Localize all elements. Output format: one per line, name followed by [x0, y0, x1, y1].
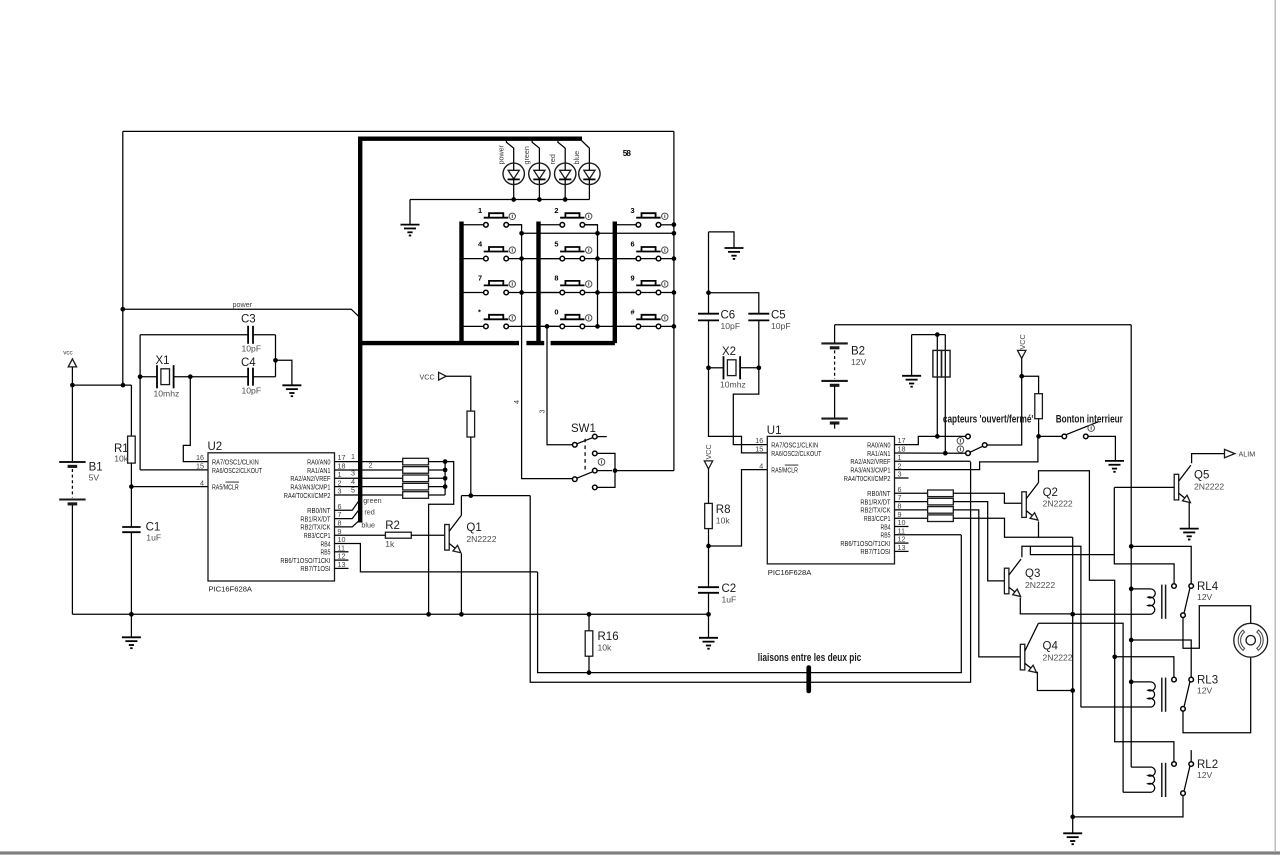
svg-text:10pF: 10pF — [242, 386, 262, 396]
svg-text:Q2: Q2 — [1043, 487, 1058, 499]
resistor U1-RB3 — [928, 515, 954, 522]
ground below C1 — [130, 614, 132, 637]
crystal X1 10mhz — [140, 376, 157, 378]
wire: RB2 resistor to Q4 base — [953, 510, 1020, 657]
svg-text:10k: 10k — [114, 454, 129, 464]
wire: RL2 bottom contact to ground bus — [1073, 796, 1183, 817]
resistor R1 10k — [130, 385, 132, 436]
svg-text:2N2222: 2N2222 — [1025, 580, 1055, 590]
svg-text:C6: C6 — [721, 310, 736, 322]
svg-text:RL3: RL3 — [1197, 674, 1218, 686]
svg-text:SW1: SW1 — [571, 423, 596, 435]
svg-text:green: green — [363, 496, 381, 505]
svg-text:1uF: 1uF — [722, 594, 737, 604]
wire: Q5 emitter to ground — [1188, 503, 1190, 529]
SW1 pole1 contact + arm — [573, 443, 578, 448]
svg-text:5V: 5V — [89, 473, 100, 483]
svg-text:0: 0 — [554, 307, 558, 316]
wire: RL3 pivot to rail — [1131, 640, 1191, 677]
svg-text:2N2222: 2N2222 — [1043, 499, 1073, 509]
LED blue — [582, 141, 590, 200]
svg-text:1k: 1k — [385, 539, 395, 549]
wire: U2 RA4/T0CKI/CMP2 to resistor — [335, 494, 403, 496]
svg-text:10mhz: 10mhz — [720, 380, 746, 390]
svg-text:2N2222: 2N2222 — [1043, 652, 1073, 662]
wire: capteur top link + ground — [912, 334, 946, 336]
svg-text:3: 3 — [631, 206, 635, 215]
push button 1 — [462, 224, 486, 226]
svg-text:U1: U1 — [767, 425, 782, 437]
wire: Bonton to ground — [1088, 436, 1115, 461]
svg-text:red: red — [364, 507, 374, 516]
resistor U2-RA3 — [403, 483, 429, 490]
relay RL2 coil — [1131, 767, 1155, 792]
wire: big rectangle right edge / keypad col3 bus down to SW1 — [673, 131, 675, 470]
resistor U1-RB0 — [928, 490, 954, 497]
wire: resistor pack common bus — [444, 462, 446, 495]
svg-text:10pF: 10pF — [771, 321, 791, 331]
push button 2 — [539, 224, 563, 226]
wire: '3' wire from keypad to SW1 — [547, 326, 575, 444]
resistor U2-RA4 — [403, 492, 429, 499]
svg-text:15: 15 — [755, 445, 763, 454]
svg-text:6: 6 — [631, 240, 635, 249]
svg-text:X2: X2 — [722, 346, 736, 358]
capacitor C3 10pF — [247, 326, 249, 344]
wire: Q3 emitter — [1020, 598, 1072, 614]
svg-text:power: power — [233, 300, 253, 309]
svg-text:10pF: 10pF — [721, 321, 741, 331]
wire: Q4 emitter — [1036, 672, 1072, 690]
wire: U1 RA2 -> outer liaison drop; RA3 -> Bonton (jogs) — [895, 460, 971, 462]
wires: U2 RB5-RB7 stubs — [335, 551, 349, 553]
sensor capteur 2 — [944, 335, 946, 454]
wire: thick keypad column bars — [459, 222, 463, 344]
wire: resistor RA1 out — [429, 469, 446, 471]
svg-text:VCC: VCC — [704, 444, 713, 459]
ground top middle — [725, 247, 744, 249]
svg-text:4: 4 — [759, 461, 763, 470]
svg-text:ALIM: ALIM — [1239, 450, 1256, 459]
wire: resistor RA0 out — [429, 461, 446, 463]
relay RL3 core — [1161, 678, 1163, 712]
wire: Q1 collector horizontal — [461, 495, 530, 497]
svg-text:12V: 12V — [1197, 686, 1213, 696]
capteur switch contact 1 — [966, 434, 971, 439]
svg-text:13: 13 — [898, 543, 906, 552]
wire: big rectangle top edge — [123, 130, 674, 132]
svg-text:10k: 10k — [598, 643, 613, 653]
svg-text:power: power — [497, 144, 506, 164]
relay RL4 coil — [1131, 589, 1155, 614]
motor M — [1234, 623, 1268, 657]
svg-text:B2: B2 — [851, 346, 865, 358]
wire: VCC to pull-up resistor — [1022, 376, 1039, 394]
wires: U1 RB6 RB7 stubs — [895, 542, 909, 544]
svg-text:C3: C3 — [241, 314, 256, 326]
SW1 mid contact — [593, 451, 598, 456]
node: SW1 output junction — [613, 468, 618, 473]
wire: osc loop left vertical to U2 pin15 — [139, 335, 141, 470]
battery B1 5V — [71, 385, 73, 462]
node: C6/C5 top junction — [706, 290, 711, 295]
wire: RL2 coil bottom to Q4 collector net — [1123, 791, 1152, 793]
wire: U1 RB4 stub — [895, 526, 909, 528]
svg-text:B1: B1 — [89, 461, 103, 473]
capacitor C5 10pF — [748, 313, 769, 315]
push button 5 — [539, 258, 563, 260]
wire: resistor RA4 out — [429, 494, 446, 496]
ground bottom right — [1072, 817, 1074, 833]
svg-text:9: 9 — [631, 274, 635, 283]
capacitor C4 10pF — [247, 368, 249, 386]
svg-text:R16: R16 — [598, 631, 619, 643]
transistor Q1 2N2222 — [445, 525, 450, 551]
node: C3/C4 ground tap — [273, 358, 278, 363]
ground Bonton — [1105, 460, 1124, 462]
wire: Q1 collector riser — [460, 496, 462, 516]
resistor (Q1 collector pullup) — [467, 411, 475, 437]
wire: RL3 coil bottom to Q3 collector net — [1081, 706, 1152, 708]
svg-text:VCC: VCC — [420, 373, 435, 382]
transistor Q2 2N2222 — [1022, 492, 1027, 518]
wire: U2 RA2/AN2/VREF to resistor — [335, 477, 403, 479]
svg-text:U2: U2 — [208, 441, 223, 453]
node: RL3 contact branch — [1112, 654, 1117, 659]
Bonton switch — [1039, 435, 1062, 437]
wire: 12V top rail — [835, 324, 1132, 326]
resistor (Bonton pull-up) — [1035, 394, 1043, 419]
SW1 link dashes — [584, 439, 586, 471]
wire: osc loop top with C3 — [140, 334, 248, 336]
push button 8 — [539, 292, 563, 294]
svg-text:C2: C2 — [722, 583, 737, 595]
svg-text:8: 8 — [554, 274, 558, 283]
svg-text:blue: blue — [361, 521, 375, 530]
wire: U1 RB0 to resistor — [895, 492, 928, 494]
bus entry marker — [806, 665, 811, 693]
svg-text:RA6/OSC2/CLKOUT: RA6/OSC2/CLKOUT — [771, 449, 821, 458]
relay RL4 core — [1161, 585, 1163, 619]
resistor U2-RA1 — [403, 467, 429, 474]
svg-text:4: 4 — [200, 478, 204, 487]
node: R8 bottom / U1 MCLR — [706, 544, 711, 549]
wire: osc loop right vertical — [275, 335, 277, 377]
symbol: circled marks capteurs — [957, 438, 964, 445]
wire: branch to RL3 top contact — [1115, 657, 1174, 677]
wire: outer liaison (Q1 node to U1 RA2) — [530, 462, 970, 682]
wire: MCLR to U2 pin 4 — [131, 486, 208, 488]
wire: inner liaison (U2 RB4 to U1 RB5) — [538, 535, 962, 673]
svg-text:1uF: 1uF — [146, 533, 161, 543]
svg-text:13: 13 — [338, 560, 346, 569]
relay RL2 contacts — [1172, 762, 1177, 767]
push button 4 — [462, 258, 486, 260]
wire: col1/col2 right-pin vertical (to SW1 '4' wire) — [506, 225, 575, 479]
wire: LED bottom rail — [410, 199, 589, 201]
push button * — [462, 325, 486, 327]
resistor U2-RA0 — [403, 458, 429, 465]
LED power — [506, 141, 513, 200]
node: crystal right / U2 pin16 riser — [188, 374, 193, 379]
svg-text:Q4: Q4 — [1043, 641, 1059, 653]
wire: X2 left branch down to U1 pin15 — [709, 368, 768, 453]
transistor Q5 2N2222 — [1174, 474, 1179, 500]
SW1 bottom contact — [593, 485, 598, 490]
svg-text:12V: 12V — [851, 357, 867, 367]
svg-text:PIC16F628A: PIC16F628A — [209, 585, 253, 594]
resistor U1-RB1 — [928, 498, 954, 505]
wire: U1 RA0 to capteur1 contact — [895, 436, 966, 444]
SW1 pole2 contact + arm — [573, 477, 578, 482]
wire: RB3 resistor long route — [953, 518, 1072, 537]
wire: U1 RA4 stub — [895, 477, 909, 479]
wire: top-middle ground branch — [709, 232, 735, 248]
node: crystal left — [138, 374, 143, 379]
transistor Q4 2N2222 — [1020, 644, 1025, 670]
wire: U1 RB2 to resistor — [895, 509, 928, 511]
push button 6 — [615, 258, 639, 260]
svg-text:RL4: RL4 — [1197, 581, 1219, 593]
LED green — [532, 141, 539, 200]
svg-text:red: red — [548, 154, 557, 164]
node: MCLR junction — [129, 484, 134, 489]
svg-text:10mhz: 10mhz — [154, 389, 180, 399]
wire: vcc/B1 horizontal at y=385 — [72, 384, 131, 386]
wire: RL4 pivot to rail — [1131, 546, 1191, 583]
ground below LEDs — [409, 200, 411, 225]
wire: resistor RA2 out — [429, 477, 446, 479]
wire: RL4 bottom contact to motor top — [1183, 606, 1251, 648]
svg-text:12V: 12V — [1197, 592, 1213, 602]
svg-text:4: 4 — [512, 400, 521, 404]
wire: thick bus left vertical — [358, 137, 362, 523]
svg-text:RB7/T1OSI: RB7/T1OSI — [860, 547, 890, 556]
svg-text:12V: 12V — [1197, 770, 1213, 780]
wire: Q5 base — [1114, 486, 1174, 488]
wire: Q1 emitter to ground rail — [460, 554, 462, 615]
wire: power net to thick LED bus — [123, 309, 360, 318]
svg-text:RA4/T0CKI/CMP2: RA4/T0CKI/CMP2 — [284, 491, 331, 500]
svg-text:*: * — [478, 307, 481, 316]
relay RL3 coil — [1131, 682, 1155, 707]
svg-text:5: 5 — [554, 240, 558, 249]
wire: SW1 output to keypad col3 edge — [615, 470, 674, 472]
svg-text:C5: C5 — [771, 310, 786, 322]
svg-text:PIC16F628A: PIC16F628A — [768, 568, 812, 577]
wire: RL2 pivot stub — [1190, 750, 1192, 762]
wire: RB0 resistor to Q2 base — [953, 493, 1022, 503]
node: Bonton node — [1036, 434, 1041, 439]
svg-text:RA5/MCLR: RA5/MCLR — [771, 465, 798, 474]
svg-text:2: 2 — [554, 206, 558, 215]
relay RL4 contacts — [1172, 584, 1177, 589]
capacitor C2 1uF — [698, 586, 719, 588]
svg-text:Q5: Q5 — [1194, 470, 1209, 482]
ALIM arrow — [1225, 449, 1235, 457]
wire: pack bus to ground rail (jog) — [429, 462, 454, 615]
wire: U1 RB5 to inner liaison — [895, 534, 962, 536]
sensor capteur 1 — [936, 335, 938, 437]
svg-text:liaisons entre les deux pic: liaisons entre les deux pic — [758, 652, 862, 664]
crystal X2 10mhz — [706, 365, 711, 370]
svg-text:15: 15 — [196, 462, 204, 471]
svg-text:1: 1 — [478, 206, 482, 215]
svg-text:blue: blue — [572, 151, 581, 165]
svg-text:vcc: vcc — [63, 350, 72, 357]
wire: thick bus bottom horizontal (gaps at wire crossings) — [358, 341, 519, 345]
wire: Q5 base riser / RL4 left contact — [1114, 487, 1174, 583]
wire: big rectangle left edge — [122, 131, 124, 385]
wire: U2 pin15 into box — [140, 469, 208, 471]
wire: U2 RA0/AN0 to resistor — [335, 461, 403, 463]
wire: U2 RB4 long wire to inner liaison — [335, 544, 538, 572]
svg-text:capteurs 'ouvert/fermé': capteurs 'ouvert/fermé' — [943, 414, 1034, 426]
svg-text:3: 3 — [898, 470, 902, 479]
relay RL3 contacts — [1172, 677, 1177, 682]
wire: VCC to resistor — [446, 376, 471, 411]
svg-text:RA6/OSC2/CLKOUT: RA6/OSC2/CLKOUT — [212, 466, 262, 475]
node: Q1 collector node — [468, 493, 473, 498]
push button 7 — [462, 292, 486, 294]
svg-text:10k: 10k — [716, 516, 731, 526]
resistor R2 1k — [335, 534, 386, 536]
resistor U1-RB2 — [928, 507, 954, 514]
wire: thick bus top horizontal — [358, 136, 582, 140]
svg-text:C4: C4 — [241, 357, 256, 369]
svg-text:green: green — [522, 146, 531, 164]
resistor R8 10k — [708, 529, 710, 588]
ground capteurs — [902, 375, 921, 377]
svg-text:RB7/T1OSI: RB7/T1OSI — [300, 564, 330, 573]
ground Q5 — [1180, 528, 1199, 530]
svg-text:3: 3 — [537, 410, 546, 414]
wire: Q3 collector net (to RL3 coil + Q5 base) — [1022, 546, 1081, 707]
svg-text:1: 1 — [351, 452, 355, 461]
wire: central emitter/ground bus — [1072, 537, 1074, 817]
wire: 12V rail right vertical — [1130, 325, 1132, 767]
wire: crystal right to U2 pin 16 (jog) — [183, 377, 208, 462]
node: rail to RL4 coil — [1129, 587, 1134, 592]
wire: U1 RB1 to resistor — [895, 501, 928, 503]
wire: U1 RA1 to capteur2 contact — [895, 452, 966, 454]
wire: U1 RB3 to resistor — [895, 517, 928, 519]
wire: resistor RA3 out — [429, 486, 446, 488]
wire: keypad row interconnects — [522, 232, 674, 234]
ground below C2 — [699, 637, 718, 639]
capteur switch contact 2 + arm — [966, 451, 971, 456]
node: VCC capteur — [1019, 374, 1024, 379]
svg-text:RA5/MCLR: RA5/MCLR — [212, 482, 239, 491]
svg-text:VCC: VCC — [1018, 334, 1027, 349]
svg-text:2N2222: 2N2222 — [1194, 481, 1224, 491]
wire: X2 right branch down to U1 pin16 — [733, 368, 767, 445]
wire: main ground rail — [72, 613, 708, 615]
relay RL2 core — [1161, 763, 1163, 797]
wire: U2 RA1/AN1 to resistor — [335, 469, 403, 471]
wire: Q4 collector to RL2 coil — [1038, 623, 1123, 792]
wire: U2 RA3/AN3/CMP1 to resistor — [335, 486, 403, 488]
push button 9 — [615, 292, 639, 294]
battery B2 12V — [834, 325, 836, 344]
wire: RL3 bottom contact to motor bottom — [1183, 657, 1251, 733]
svg-text:R2: R2 — [385, 520, 400, 532]
wire: Q2 collector to relay chain — [1039, 471, 1174, 762]
wire: capteur common to VCC — [987, 376, 1022, 445]
push button 0 — [539, 325, 563, 327]
wire: RL4 coil bottom to emitter bus — [1073, 613, 1152, 615]
transistor Q3 2N2222 — [1004, 568, 1009, 594]
wire: RB1 resistor to Q3 base — [953, 502, 1004, 581]
resistor U2-RA2 — [403, 475, 429, 482]
resistor R16 10k — [587, 612, 592, 617]
svg-text:3: 3 — [338, 487, 342, 496]
node: power tap on left edge — [120, 307, 125, 312]
wire: Q5 collector to ALIM — [1192, 454, 1225, 464]
wire + ground at oscillator — [276, 360, 292, 385]
svg-text:Q1: Q1 — [466, 522, 481, 534]
svg-text:Bonton interrieur: Bonton interrieur — [1056, 414, 1124, 426]
svg-text:RA4/T0CKI/CMP2: RA4/T0CKI/CMP2 — [844, 474, 891, 483]
wire: Q2 emitter down — [1038, 522, 1040, 538]
LED red — [558, 141, 565, 200]
wire: to C5 branch — [709, 293, 759, 314]
svg-text:Q3: Q3 — [1025, 568, 1040, 580]
svg-text:7: 7 — [478, 274, 482, 283]
svg-text:2N2222: 2N2222 — [466, 534, 496, 544]
svg-text:10pF: 10pF — [242, 344, 262, 354]
svg-text:X1: X1 — [156, 355, 170, 367]
push button 3 — [615, 224, 639, 226]
wires: U2 RB0-RB2 diagonals to thick bus (green/red/blue) — [335, 501, 359, 510]
capacitor C6 10pF — [708, 232, 710, 314]
svg-text:#: # — [631, 307, 635, 316]
svg-text:R8: R8 — [716, 504, 731, 516]
capacitor C1 1uF — [130, 487, 132, 528]
symbol: circled mark SW1 — [598, 459, 605, 466]
svg-text:RL2: RL2 — [1197, 759, 1218, 771]
push button # — [615, 325, 639, 327]
wire: U1 MCLR to R8 bottom — [709, 470, 768, 546]
